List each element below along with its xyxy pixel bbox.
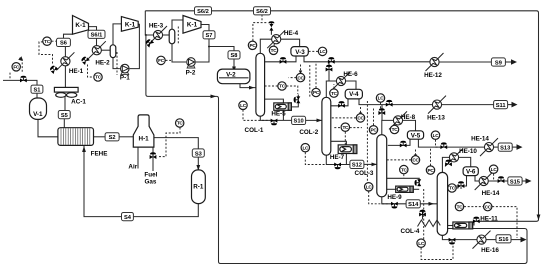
svg-text:CC: CC — [297, 75, 304, 80]
svg-text:LC: LC — [302, 145, 309, 150]
svg-text:HE-5: HE-5 — [271, 111, 286, 118]
svg-text:HE-6: HE-6 — [343, 71, 358, 78]
svg-text:COL-1: COL-1 — [245, 127, 264, 134]
svg-text:S6/2: S6/2 — [256, 9, 268, 15]
svg-text:S16: S16 — [498, 237, 508, 243]
svg-text:HE-16: HE-16 — [481, 247, 499, 254]
svg-text:CC: CC — [485, 204, 492, 209]
svg-text:HE-7: HE-7 — [330, 154, 345, 161]
svg-text:S9: S9 — [495, 60, 502, 66]
svg-text:V-6: V-6 — [466, 169, 476, 176]
svg-text:TC: TC — [401, 167, 408, 172]
svg-text:TC: TC — [342, 125, 349, 130]
svg-text:Gas: Gas — [144, 179, 156, 186]
svg-text:LC: LC — [320, 49, 327, 54]
svg-text:TC: TC — [44, 39, 51, 44]
svg-text:V-3: V-3 — [295, 49, 305, 56]
svg-text:HE-8: HE-8 — [401, 114, 416, 121]
svg-text:LC: LC — [418, 241, 425, 246]
svg-text:S10: S10 — [294, 119, 304, 125]
svg-text:TC: TC — [457, 204, 464, 209]
svg-text:S12: S12 — [352, 163, 362, 169]
svg-text:PC: PC — [313, 90, 320, 95]
svg-text:HE-14: HE-14 — [471, 136, 489, 143]
svg-text:P-2: P-2 — [186, 70, 196, 77]
svg-text:TC: TC — [279, 84, 286, 89]
svg-text:HE-10: HE-10 — [459, 148, 477, 155]
svg-text:P-1: P-1 — [120, 75, 130, 82]
svg-text:R-1: R-1 — [193, 184, 204, 191]
svg-text:FC: FC — [13, 65, 20, 70]
svg-text:TC: TC — [392, 127, 399, 132]
svg-text:LC: LC — [433, 133, 440, 138]
svg-text:V-4: V-4 — [349, 91, 359, 98]
svg-text:HE-4: HE-4 — [284, 30, 299, 37]
svg-text:S6/1: S6/1 — [91, 33, 103, 39]
svg-text:PC: PC — [250, 43, 257, 48]
svg-text:S14: S14 — [408, 202, 419, 208]
svg-text:LC: LC — [366, 185, 373, 190]
svg-text:TC: TC — [95, 75, 102, 80]
svg-text:V-2: V-2 — [226, 72, 236, 79]
svg-text:K-1: K-1 — [75, 22, 86, 29]
svg-text:S6/2: S6/2 — [197, 9, 209, 15]
svg-text:S7: S7 — [206, 33, 213, 39]
svg-text:HE-9: HE-9 — [387, 194, 402, 201]
svg-text:S13: S13 — [500, 145, 510, 151]
svg-text:HE-13: HE-13 — [427, 115, 445, 122]
svg-text:S8: S8 — [231, 53, 238, 59]
svg-text:S15: S15 — [510, 179, 520, 185]
svg-text:HE-3: HE-3 — [149, 23, 164, 30]
svg-text:Fuel: Fuel — [144, 172, 157, 179]
svg-text:H-1: H-1 — [139, 136, 150, 143]
svg-text:S3: S3 — [195, 151, 202, 157]
svg-text:S11: S11 — [496, 103, 506, 109]
svg-text:FEHE: FEHE — [91, 150, 108, 157]
svg-text:K-1: K-1 — [187, 22, 198, 29]
svg-text:HE-11: HE-11 — [480, 216, 498, 223]
svg-text:K-1: K-1 — [125, 22, 136, 29]
svg-text:CC: CC — [412, 158, 419, 163]
svg-text:HE-14: HE-14 — [482, 190, 500, 197]
svg-text:Air: Air — [128, 164, 137, 171]
svg-text:COL-4: COL-4 — [401, 228, 420, 235]
svg-text:TC: TC — [177, 121, 184, 126]
svg-text:S4: S4 — [124, 215, 132, 221]
svg-text:PC: PC — [371, 128, 378, 133]
svg-text:LC: LC — [491, 167, 498, 172]
svg-text:S2: S2 — [109, 135, 116, 141]
svg-text:COL-2: COL-2 — [299, 129, 318, 136]
svg-text:TC: TC — [331, 91, 338, 96]
svg-text:V-5: V-5 — [411, 132, 421, 139]
svg-text:PC: PC — [428, 168, 435, 173]
svg-text:HE-2: HE-2 — [95, 60, 110, 67]
svg-text:CC: CC — [357, 116, 364, 121]
svg-text:AC-1: AC-1 — [71, 98, 86, 105]
svg-text:FC: FC — [158, 58, 165, 63]
svg-text:S5: S5 — [61, 113, 68, 119]
svg-text:V-1: V-1 — [33, 111, 43, 118]
svg-text:S1: S1 — [34, 88, 41, 94]
svg-text:TC: TC — [449, 186, 456, 191]
svg-text:HE-12: HE-12 — [424, 72, 442, 79]
svg-text:LC: LC — [378, 96, 385, 101]
svg-text:LC: LC — [240, 103, 247, 108]
svg-text:COL-3: COL-3 — [355, 170, 374, 177]
svg-text:TC: TC — [271, 48, 278, 53]
svg-text:S6: S6 — [60, 41, 67, 47]
svg-text:HE-1: HE-1 — [69, 68, 84, 75]
